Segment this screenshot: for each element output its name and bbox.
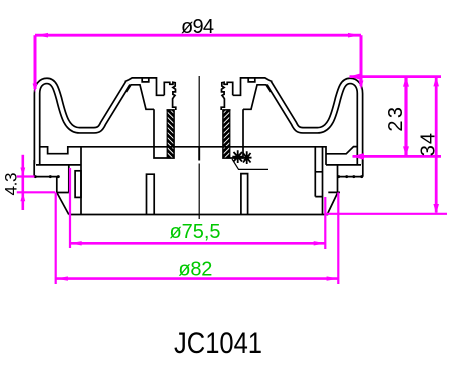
- dia82 extension lines: [56, 193, 339, 285]
- leader line: [232, 159, 268, 169]
- flange edge left: [57, 177, 69, 193]
- svg-text:4.3: 4.3: [2, 173, 21, 196]
- 4.3 arrows: [20, 168, 25, 177]
- flange inner edge left: [68, 165, 70, 193]
- dia94 left extension leg: [34, 35, 37, 89]
- slot in skirt left: [147, 174, 155, 214]
- pocket in skirt right: [315, 147, 322, 197]
- slot in skirt right: [241, 174, 248, 215]
- dia75.5 extension lines: [70, 168, 325, 249]
- extra dot on right lip line: [352, 175, 355, 178]
- 23 dimension line: [404, 78, 407, 155]
- centerline: [198, 76, 200, 219]
- arrowheads magenta: [20, 33, 439, 281]
- part outline left half: [34, 78, 199, 215]
- top surface with groove left: [40, 147, 199, 154]
- dia75.5 dimension line: [70, 242, 326, 245]
- top surface with groove right: [199, 147, 358, 165]
- 23 ext arrows: [349, 73, 361, 80]
- lip line right: [326, 164, 361, 166]
- dia82 dimension line: [56, 277, 339, 280]
- 34 bottom extension: [325, 213, 447, 215]
- flange edge right: [328, 165, 340, 193]
- 34 dim arrows: [433, 77, 439, 87]
- 34 dimension line: [435, 78, 438, 213]
- svg-text:JC1041: JC1041: [174, 327, 262, 360]
- dia75.5 arrows: [70, 241, 82, 245]
- inner skirt wall right: [322, 147, 324, 215]
- 4.3 extension lines: [17, 177, 55, 193]
- pocket in skirt left: [75, 171, 81, 198]
- svg-text:23: 23: [385, 107, 407, 132]
- lip line left: [36, 164, 81, 166]
- inner skirt wall left: [80, 147, 82, 215]
- dia82 arrows: [56, 276, 68, 280]
- dia94 right arrow: [359, 81, 364, 90]
- part outline right half (mirror): [199, 78, 364, 215]
- weld scribbles: [235, 154, 240, 159]
- dia94 dimension line: [35, 34, 361, 37]
- svg-text:34: 34: [418, 133, 440, 156]
- svg-text:ø82: ø82: [178, 259, 212, 281]
- chamfer right: [327, 192, 338, 214]
- dia94 right extension leg: [360, 35, 363, 86]
- dia94 line left arrowhead: [36, 33, 48, 38]
- chamfer left: [57, 193, 69, 215]
- 23 dim arrows: [403, 77, 409, 87]
- 23 top extension: [350, 75, 442, 78]
- 23 bottom extension: [353, 155, 442, 158]
- svg-text:ø75,5: ø75,5: [170, 221, 221, 243]
- dia94 left arrow: [33, 84, 38, 93]
- dia94 line right arrowhead: [348, 33, 360, 38]
- svg-text:ø94: ø94: [181, 16, 214, 38]
- 4.3 dimension line: [21, 155, 24, 210]
